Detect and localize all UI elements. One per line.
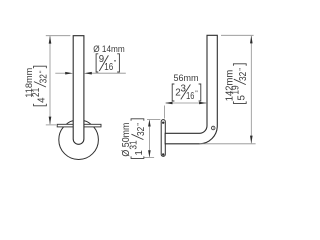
roll circle (front view): [59, 120, 99, 160]
rod (front view): [73, 36, 84, 145]
dimension 56mm: line: [166, 102, 206, 104]
dimension 56mm: left extension: [164, 106, 166, 119]
svg-text:": ": [39, 70, 46, 73]
svg-text:32: 32: [136, 127, 147, 136]
dimension D50mm: bottom extension: [144, 157, 154, 159]
dimension D50mm: down arrow: [148, 150, 151, 157]
dimension 56mm: left-pointing arrow: [165, 102, 173, 105]
label [9/16"]: [96, 54, 119, 73]
dimension 56mm: right-pointing arrow: [199, 102, 207, 105]
label 142mm [5 19/32"] (rotated): [224, 64, 249, 104]
svg-text:21: 21: [31, 88, 42, 97]
label D50mm [1 31/32"] (rotated): [121, 119, 147, 159]
svg-text:56mm: 56mm: [174, 73, 199, 83]
svg-text:": ": [114, 60, 117, 67]
screw bottom: [162, 153, 164, 155]
set screw: [211, 126, 215, 130]
dimension 118mm: up arrow: [49, 36, 52, 44]
svg-text:1: 1: [134, 150, 145, 155]
dimension 118mm: bottom extension: [46, 124, 56, 126]
dimension D14mm: right-pointing arrow: [65, 72, 73, 75]
dimension D50mm: top extension: [147, 118, 160, 120]
bracket arm and rod (side view): [165, 35, 217, 144]
svg-text:32: 32: [38, 74, 49, 83]
wall plate (side view): [161, 120, 165, 157]
dimension 142mm: up arrow: [250, 36, 253, 44]
svg-text:": ": [195, 90, 198, 97]
svg-text:16: 16: [186, 91, 195, 102]
dimension 118mm: line: [49, 36, 51, 124]
dimension D14mm: right line: [91, 72, 126, 74]
svg-text:31: 31: [128, 140, 139, 149]
svg-text:32: 32: [238, 72, 249, 81]
dimension 118mm: down arrow: [49, 117, 52, 125]
screw top: [162, 122, 164, 124]
svg-text:16: 16: [104, 62, 113, 73]
dimension 142mm: down arrow: [250, 136, 253, 144]
dimension D50mm: line: [148, 120, 150, 157]
flange bar (front view): [57, 124, 101, 127]
svg-text:Ø 50mm: Ø 50mm: [121, 123, 132, 157]
label [2 3/16"]: [172, 84, 201, 102]
dimension D50mm: up arrow: [148, 120, 151, 127]
svg-text:": ": [137, 123, 144, 126]
dimension 142mm: line: [250, 36, 252, 143]
svg-text:": ": [239, 68, 246, 71]
dimension D14mm: left-pointing arrow: [84, 72, 92, 75]
label 118mm [4 21/32"] (rotated): [24, 66, 49, 106]
svg-text:Ø 14mm: Ø 14mm: [93, 43, 125, 54]
dimension 118mm: top extension: [46, 35, 71, 37]
dimension D14mm: left line: [55, 72, 66, 74]
dimension 142mm: top extension: [221, 34, 254, 36]
svg-text:19: 19: [231, 85, 242, 94]
dimension 142mm: bottom extension: [200, 143, 256, 145]
